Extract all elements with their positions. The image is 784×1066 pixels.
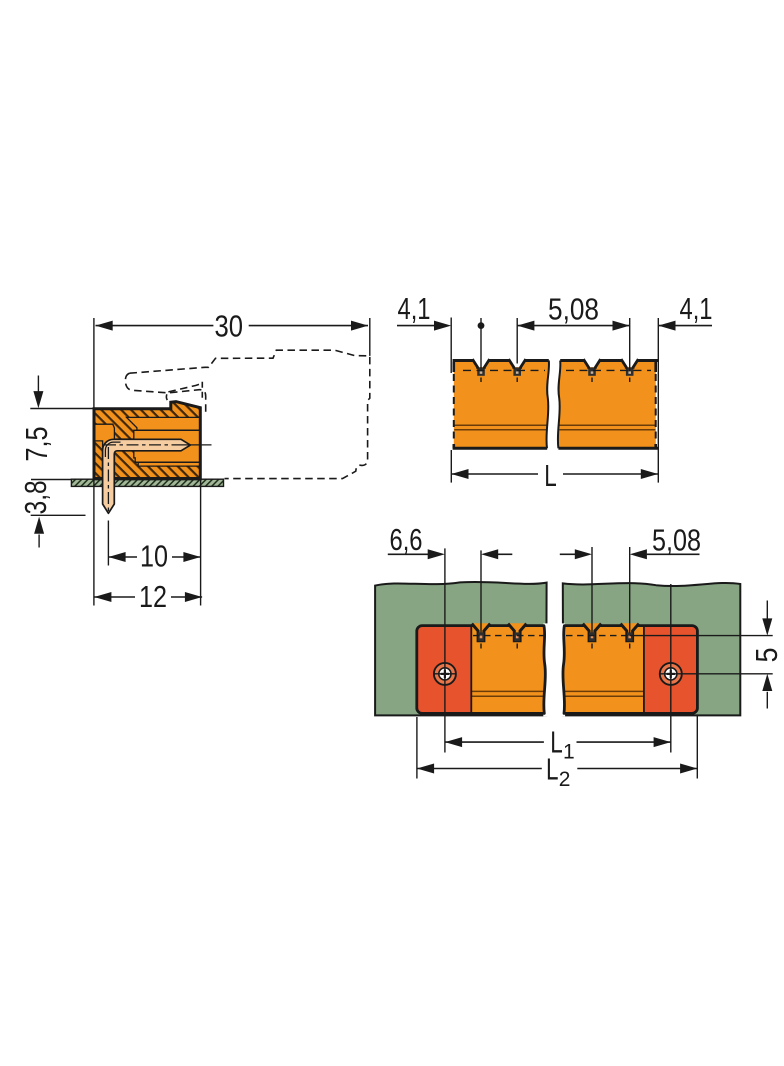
svg-text:2: 2 bbox=[559, 768, 571, 791]
svg-text:10: 10 bbox=[140, 540, 168, 574]
svg-text:4,1: 4,1 bbox=[680, 292, 713, 326]
svg-text:L: L bbox=[546, 753, 559, 787]
svg-text:7,5: 7,5 bbox=[20, 427, 54, 462]
svg-text:12: 12 bbox=[139, 580, 167, 614]
svg-text:5: 5 bbox=[750, 648, 784, 663]
svg-text:30: 30 bbox=[215, 310, 244, 344]
svg-text:5,08: 5,08 bbox=[652, 523, 701, 557]
svg-text:L: L bbox=[544, 459, 557, 493]
svg-text:5,08: 5,08 bbox=[548, 293, 599, 327]
svg-text:1: 1 bbox=[563, 741, 575, 764]
svg-text:4,1: 4,1 bbox=[398, 292, 431, 326]
svg-text:3,8: 3,8 bbox=[19, 480, 53, 514]
svg-text:6,6: 6,6 bbox=[390, 523, 423, 557]
